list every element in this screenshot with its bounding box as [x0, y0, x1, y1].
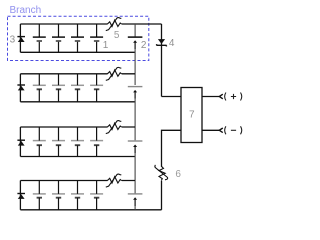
cell r2c1 [33, 84, 46, 86]
diode 3 body [17, 37, 25, 42]
wire row2 left edge [19, 74, 21, 102]
svg-text:2: 2 [141, 40, 147, 51]
diode 4 (zener) [156, 39, 166, 46]
cell r1c2 [58, 24, 60, 52]
wire output plus [202, 96, 219, 98]
wire row4 top [20, 180, 135, 182]
svg-text:6: 6 [175, 169, 181, 180]
wire to block top input [162, 96, 182, 98]
cell r4c4 [90, 193, 103, 195]
cell r1c4 [96, 24, 98, 52]
block 7 [181, 88, 202, 143]
diode row2 [17, 85, 25, 90]
cell 2 (bus arrow cell row1) [128, 37, 143, 85]
wire block bottom input [162, 130, 182, 167]
wire bus segment row1-row2 [134, 49, 136, 85]
svg-text:1: 1 [103, 40, 109, 51]
terminal chevron plus [219, 94, 223, 99]
wire row3 bottom [20, 156, 135, 158]
wire row4 bottom [20, 209, 161, 211]
cell r2c2 [52, 84, 65, 86]
cell r3c2 [52, 140, 65, 142]
wire bus segment row4-bottom [134, 206, 136, 210]
wire row3 top [20, 126, 135, 128]
wire fuse6 to bottom [161, 181, 163, 210]
cells row 2 [33, 84, 103, 86]
svg-text:3: 3 [10, 34, 16, 45]
wire output minus [202, 129, 219, 131]
svg-text:5: 5 [114, 30, 120, 41]
cell r4c1 [33, 193, 46, 195]
branch selection box [8, 16, 149, 60]
cells row 1 [33, 24, 103, 52]
cell r4c2 [52, 193, 65, 195]
wire bus segment row3-row4 [134, 153, 136, 194]
bus arrow cell row2 [128, 87, 143, 141]
wire row1 bottom [20, 51, 135, 53]
fuse row3 [106, 121, 122, 134]
wire row2 bottom [20, 101, 135, 103]
fuse row2 [106, 67, 122, 80]
terminal chevron minus [219, 128, 223, 133]
wire row3 left edge [19, 127, 21, 157]
bus top segment [134, 24, 136, 37]
diode row3 [17, 140, 25, 145]
diode row4 [17, 194, 25, 199]
bus arrow cell row4 [128, 194, 143, 210]
cell r1c3 [77, 24, 79, 52]
wire right riser top [161, 24, 163, 97]
terminal label (-) [225, 126, 242, 134]
bus arrow cell row3 [128, 141, 143, 194]
fuse 6 (vertical) [155, 165, 168, 181]
svg-text:Branch: Branch [10, 5, 42, 16]
wire row2 top [20, 73, 135, 75]
svg-text:7: 7 [189, 109, 195, 120]
wire row1 top [20, 23, 161, 25]
wire row4 left edge [19, 181, 21, 210]
cell r4c3 [71, 193, 84, 195]
cell r1c1 [38, 24, 40, 52]
svg-text:4: 4 [169, 38, 175, 49]
cell r2c4 [90, 84, 103, 86]
terminal label (+) [225, 93, 242, 101]
cell r3c4 [90, 140, 103, 142]
cell r2c3 [71, 84, 84, 86]
fuse row4 [106, 174, 122, 187]
cells row 3 [33, 140, 103, 142]
cell r3c1 [33, 140, 46, 142]
cells row 4 [33, 193, 103, 195]
wire row1 left edge [19, 24, 21, 52]
fuse 5 [106, 18, 122, 31]
cell r3c3 [71, 140, 84, 142]
wire bus segment row2-row3 [134, 99, 136, 141]
